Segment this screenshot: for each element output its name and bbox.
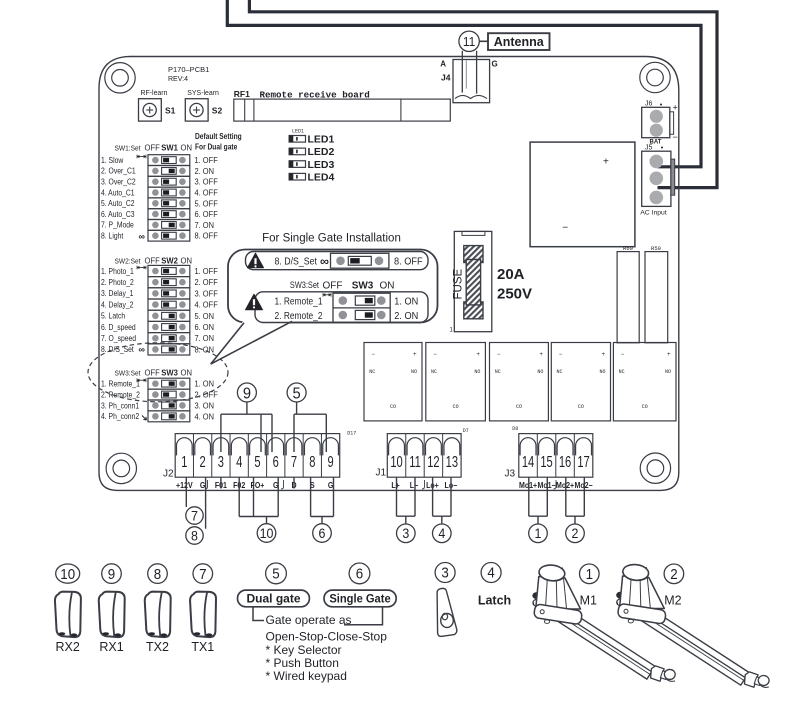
svg-text:NO: NO <box>411 369 417 375</box>
svg-text:2. OFF: 2. OFF <box>195 390 218 400</box>
svg-text:* Key Selector: * Key Selector <box>266 643 342 657</box>
svg-text:SW1: SW1 <box>161 143 178 152</box>
svg-text:8: 8 <box>191 528 198 544</box>
svg-text:3: 3 <box>218 453 224 470</box>
svg-text:1: 1 <box>181 453 187 470</box>
svg-text:CO: CO <box>578 404 584 410</box>
svg-text:CO: CO <box>642 404 648 410</box>
svg-text:LED1: LED1 <box>292 129 304 135</box>
svg-text:−: − <box>433 351 437 358</box>
svg-text:D8: D8 <box>512 426 518 432</box>
svg-text:2. ON: 2. ON <box>394 311 418 322</box>
svg-text:250V: 250V <box>497 286 532 303</box>
svg-text:NC: NC <box>431 369 437 375</box>
svg-text:P170–PCB1: P170–PCB1 <box>168 65 209 74</box>
svg-text:NC: NC <box>369 369 375 375</box>
svg-text:6: 6 <box>356 565 364 582</box>
svg-text:1. ON: 1. ON <box>195 379 215 389</box>
svg-text:6. Auto_C3: 6. Auto_C3 <box>101 209 135 219</box>
svg-text:LED1: LED1 <box>308 134 335 146</box>
svg-text:−: − <box>673 132 678 142</box>
svg-text:∞: ∞ <box>139 345 146 355</box>
svg-text:8. ON: 8. ON <box>195 345 215 355</box>
svg-text:−: − <box>497 351 501 358</box>
svg-text:9: 9 <box>327 453 333 470</box>
svg-text:+: + <box>539 351 543 358</box>
svg-text:11: 11 <box>409 453 421 470</box>
svg-text:R60: R60 <box>623 245 633 252</box>
svg-text:5. Auto_C2: 5. Auto_C2 <box>101 199 135 209</box>
svg-text:+: + <box>667 351 671 358</box>
svg-text:13: 13 <box>446 453 458 470</box>
svg-text:1. Remote_1: 1. Remote_1 <box>275 296 323 307</box>
svg-text:NC: NC <box>557 369 563 375</box>
svg-text:2. Remote_2: 2. Remote_2 <box>275 310 323 321</box>
svg-text:1. Photo_1: 1. Photo_1 <box>101 266 134 276</box>
svg-text:2. Photo_2: 2. Photo_2 <box>101 277 134 287</box>
svg-text:SW2:Set: SW2:Set <box>115 258 141 265</box>
svg-text:SW3: SW3 <box>352 280 374 291</box>
svg-text:7. O_speed: 7. O_speed <box>101 333 136 343</box>
svg-text:J4: J4 <box>441 73 451 83</box>
svg-text:10: 10 <box>60 565 75 582</box>
svg-text:RX1: RX1 <box>99 640 123 654</box>
svg-text:ON: ON <box>181 368 193 377</box>
svg-text:5: 5 <box>254 453 260 470</box>
svg-text:−: − <box>371 351 375 358</box>
svg-text:+: + <box>476 351 480 358</box>
svg-text:A: A <box>440 60 446 69</box>
svg-text:REV:4: REV:4 <box>168 76 188 83</box>
svg-text:15: 15 <box>540 453 552 470</box>
svg-text:G: G <box>200 481 206 491</box>
svg-text:RF1: RF1 <box>234 89 250 99</box>
svg-text:SW2: SW2 <box>161 256 178 265</box>
svg-text:Gate operate as: Gate operate as <box>266 613 352 627</box>
svg-text:3. ON: 3. ON <box>195 401 215 411</box>
svg-text:LED3: LED3 <box>308 159 335 171</box>
svg-text:G: G <box>492 60 498 69</box>
svg-text:8. Light: 8. Light <box>101 231 123 241</box>
svg-text:J2: J2 <box>163 469 174 480</box>
svg-text:CO: CO <box>453 404 459 410</box>
svg-text:TX2: TX2 <box>146 640 169 654</box>
svg-text:2. Over_C1: 2. Over_C1 <box>101 166 136 176</box>
svg-text:−: − <box>621 351 625 358</box>
svg-text:3: 3 <box>402 526 409 542</box>
svg-text:1. Remote_1: 1. Remote_1 <box>101 379 140 389</box>
svg-text:5. OFF: 5. OFF <box>195 199 218 209</box>
svg-text:7. P_Mode: 7. P_Mode <box>101 220 134 230</box>
svg-text:4: 4 <box>438 526 445 542</box>
svg-text:8. OFF: 8. OFF <box>195 231 218 241</box>
svg-text:3. OFF: 3. OFF <box>195 177 218 187</box>
svg-text:NC: NC <box>619 369 625 375</box>
svg-text:−: − <box>559 351 563 358</box>
svg-text:Latch: Latch <box>478 594 511 608</box>
svg-text:9: 9 <box>243 385 251 403</box>
svg-text:5. Latch: 5. Latch <box>101 311 125 321</box>
svg-text:4. Delay_2: 4. Delay_2 <box>101 300 133 310</box>
svg-text:6: 6 <box>273 453 279 470</box>
svg-text:OFF: OFF <box>323 280 343 291</box>
svg-text:7. ON: 7. ON <box>195 334 215 344</box>
svg-text:14: 14 <box>522 453 535 470</box>
svg-text:∞: ∞ <box>320 254 329 268</box>
svg-text:6. D_speed: 6. D_speed <box>101 322 136 332</box>
svg-text:M1: M1 <box>580 594 597 608</box>
svg-text:L−: L− <box>410 481 419 491</box>
svg-text:J6: J6 <box>645 101 653 108</box>
svg-text:8. OFF: 8. OFF <box>394 256 423 267</box>
svg-text:∞: ∞ <box>139 231 146 241</box>
svg-text:For Dual gate: For Dual gate <box>195 142 237 152</box>
svg-text:SW3: SW3 <box>161 368 178 377</box>
svg-text:7: 7 <box>291 453 297 470</box>
svg-text:12: 12 <box>427 453 439 470</box>
svg-text:Single Gate: Single Gate <box>329 593 391 605</box>
svg-text:G: G <box>328 481 334 491</box>
svg-text:4: 4 <box>487 564 495 581</box>
svg-text:OFF: OFF <box>145 256 160 265</box>
svg-text:S1: S1 <box>165 106 176 116</box>
svg-text:8. D/S_Set: 8. D/S_Set <box>101 345 134 355</box>
svg-text:R59: R59 <box>651 245 661 252</box>
svg-text:NO: NO <box>665 369 671 375</box>
svg-text:OFF: OFF <box>145 143 160 152</box>
svg-text:3. Over_C2: 3. Over_C2 <box>101 177 136 187</box>
svg-text:1: 1 <box>586 565 594 582</box>
svg-text:2. OFF: 2. OFF <box>195 278 218 288</box>
svg-text:Open-Stop-Close-Stop: Open-Stop-Close-Stop <box>266 630 388 644</box>
svg-text:+: + <box>603 157 609 168</box>
svg-text:17: 17 <box>577 453 589 470</box>
svg-text:NO: NO <box>600 369 606 375</box>
svg-text:2. ON: 2. ON <box>195 166 215 176</box>
svg-text:2: 2 <box>670 565 678 582</box>
svg-text:M2: M2 <box>664 594 681 608</box>
svg-text:J3: J3 <box>505 469 516 480</box>
svg-text:4. OFF: 4. OFF <box>195 300 218 310</box>
svg-text:6: 6 <box>319 525 326 541</box>
svg-text:OFF: OFF <box>145 368 160 377</box>
svg-text:SYS-learn: SYS-learn <box>187 89 219 97</box>
svg-text:5: 5 <box>272 565 280 582</box>
svg-text:Default Setting: Default Setting <box>195 131 242 141</box>
svg-text:NO: NO <box>537 369 543 375</box>
svg-text:6. ON: 6. ON <box>195 323 215 333</box>
svg-text:4. OFF: 4. OFF <box>195 188 218 198</box>
svg-text:8: 8 <box>154 565 162 582</box>
svg-text:5: 5 <box>293 385 301 403</box>
svg-text:10: 10 <box>260 525 274 541</box>
svg-text:LED2: LED2 <box>308 146 335 158</box>
svg-text:9: 9 <box>108 565 116 582</box>
svg-text:−: − <box>562 223 568 234</box>
svg-text:LED4: LED4 <box>308 171 335 183</box>
svg-text:4: 4 <box>236 453 243 470</box>
svg-text:4. Ph_conn2: 4. Ph_conn2 <box>101 412 139 422</box>
svg-text:For Single Gate Installation: For Single Gate Installation <box>262 233 401 245</box>
svg-text:ON: ON <box>181 143 193 152</box>
svg-text:AC Input: AC Input <box>640 210 667 217</box>
svg-text:+: + <box>673 103 678 113</box>
svg-text:7: 7 <box>199 565 207 582</box>
svg-text:1. OFF: 1. OFF <box>195 267 218 277</box>
svg-text:SW3:Set: SW3:Set <box>115 370 141 377</box>
svg-text:RF-learn: RF-learn <box>141 89 168 97</box>
svg-text:4. Auto_C1: 4. Auto_C1 <box>101 188 135 198</box>
svg-text:SW1:Set: SW1:Set <box>115 145 141 152</box>
svg-text:J1: J1 <box>376 468 387 479</box>
svg-text:SW3:Set: SW3:Set <box>290 280 320 290</box>
svg-text:2: 2 <box>572 526 579 542</box>
svg-text:CO: CO <box>516 404 522 410</box>
svg-text:8. D/S_Set: 8. D/S_Set <box>275 255 318 267</box>
svg-text:2: 2 <box>200 453 206 470</box>
svg-text:3. Ph_conn1: 3. Ph_conn1 <box>101 401 139 411</box>
svg-text:4. ON: 4. ON <box>195 412 215 422</box>
svg-text:NO: NO <box>474 369 480 375</box>
svg-text:J5: J5 <box>645 145 653 152</box>
svg-text:6. OFF: 6. OFF <box>195 210 218 220</box>
svg-text:NC: NC <box>495 369 501 375</box>
svg-text:1. ON: 1. ON <box>394 296 418 307</box>
svg-text:+: + <box>602 351 606 358</box>
svg-text:S2: S2 <box>212 106 223 116</box>
svg-text:8: 8 <box>309 453 315 470</box>
svg-text:Dual gate: Dual gate <box>246 591 300 605</box>
svg-text:1. OFF: 1. OFF <box>195 156 218 166</box>
svg-text:2. Remote_2: 2. Remote_2 <box>101 390 140 400</box>
svg-text:3. Delay_1: 3. Delay_1 <box>101 289 133 299</box>
svg-text:3. OFF: 3. OFF <box>195 289 218 299</box>
svg-text:TX1: TX1 <box>191 640 214 654</box>
svg-text:+12V: +12V <box>176 481 193 491</box>
svg-text:5. ON: 5. ON <box>195 311 215 321</box>
svg-text:RX2: RX2 <box>56 640 80 654</box>
svg-text:ON: ON <box>181 256 193 265</box>
svg-text:* Push Button: * Push Button <box>266 656 339 670</box>
svg-text:7. ON: 7. ON <box>195 220 215 230</box>
svg-text:ON: ON <box>380 280 395 291</box>
svg-text:* Wired keypad: * Wired keypad <box>266 669 347 683</box>
svg-text:Antenna: Antenna <box>494 35 545 49</box>
svg-text:+: + <box>413 351 417 358</box>
svg-text:7: 7 <box>191 508 198 524</box>
svg-text:D17: D17 <box>347 431 356 437</box>
svg-text:20A: 20A <box>497 266 525 283</box>
svg-text:FO+: FO+ <box>251 481 265 491</box>
svg-text:1: 1 <box>535 526 542 542</box>
svg-text:3: 3 <box>441 564 449 581</box>
svg-text:10: 10 <box>390 453 402 470</box>
svg-text:1. Slow: 1. Slow <box>101 155 124 165</box>
svg-text:16: 16 <box>559 453 571 470</box>
svg-text:11: 11 <box>463 34 475 49</box>
svg-text:D7: D7 <box>463 428 469 434</box>
svg-text:FUSE: FUSE <box>453 269 465 300</box>
svg-text:CO: CO <box>390 404 396 410</box>
